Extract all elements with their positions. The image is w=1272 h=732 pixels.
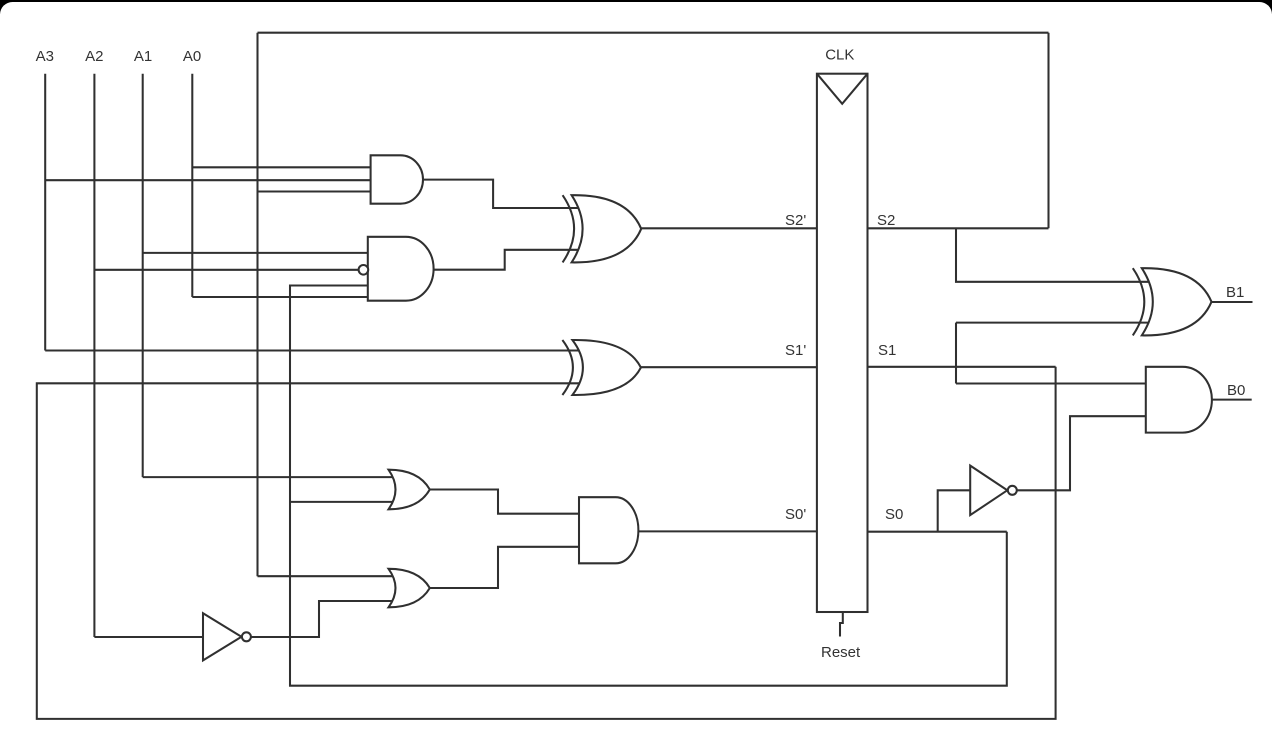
wire OR2 output to AND3 input2	[430, 547, 579, 588]
wire S0 output row	[868, 531, 1007, 533]
wire to XOR3 input2	[956, 322, 1150, 324]
wire AND1 output to XOR1 input1	[423, 180, 579, 208]
wire to AND4 input1	[956, 382, 1146, 384]
register REG1 body	[817, 74, 868, 612]
xor-gate XOR3 outer arc	[1133, 268, 1145, 335]
node A2 input vertical	[93, 74, 95, 637]
not-gate NOT1 triangle	[203, 613, 242, 660]
register REG1 clock wedge	[817, 74, 868, 104]
wire XOR2 output to register S1'	[641, 366, 817, 368]
svg-text:A0: A0	[183, 48, 201, 65]
svg-text:CLK: CLK	[825, 47, 854, 64]
wire A2 to NOT1 input	[94, 636, 203, 638]
node A3 input vertical	[44, 74, 46, 351]
wire A1 to AND2 input1	[143, 252, 368, 254]
wire S0 branch to OR1 input2	[290, 501, 395, 503]
xor-gate XOR2 outer arc	[562, 340, 573, 395]
wire XOR3 output B1	[1212, 301, 1253, 303]
and-gate AND4	[1146, 367, 1212, 433]
wire S1 output row	[868, 366, 1056, 368]
and-gate AND3	[579, 497, 638, 563]
not-gate NOT2 triangle	[970, 466, 1007, 515]
svg-text:S2: S2	[877, 212, 895, 229]
svg-text:S0': S0'	[785, 506, 806, 523]
wire S1 feedback loop	[37, 367, 1056, 719]
svg-text:B0: B0	[1227, 382, 1245, 399]
wire OR1 output to AND3 input1	[430, 490, 579, 514]
wire S2 end to OR2 input1	[258, 575, 396, 577]
node A1 input vertical	[142, 74, 144, 477]
xor-gate XOR3 body	[1142, 268, 1212, 335]
and-gate AND1	[371, 155, 423, 203]
wire A0 to AND1 input1	[192, 166, 370, 168]
svg-text:S2': S2'	[785, 212, 806, 229]
wire S2 branch to AND1 input3	[258, 190, 371, 192]
node A0 input vertical	[191, 74, 193, 297]
wire AND2 output to XOR1 input2	[434, 250, 579, 270]
nand-gate AND2	[368, 237, 434, 301]
wire AND3 output to register S0'	[638, 530, 817, 532]
xor-gate XOR1 outer arc	[563, 195, 575, 262]
wire S2 feedback left vertical	[256, 33, 258, 577]
wire AND4 output B0	[1212, 399, 1252, 401]
wire A1 to OR1 input1	[143, 476, 395, 478]
wire A2 to AND2 input2 bubble	[94, 269, 358, 271]
wire Reset stub	[840, 612, 843, 637]
wire A3 to AND1 input2	[45, 179, 370, 181]
svg-text:S1: S1	[878, 342, 896, 359]
svg-text:B1: B1	[1226, 284, 1244, 301]
bubble NOT2 output	[1008, 486, 1017, 495]
svg-text:S0: S0	[885, 506, 903, 523]
wire S0 feedback loop	[290, 286, 1007, 686]
wire NOT2 output to AND4 input2	[1017, 416, 1146, 490]
wire A0 to AND2 input4	[192, 296, 367, 298]
svg-text:S1': S1'	[785, 342, 806, 359]
wire S1 vertical to XOR3 input2	[955, 323, 957, 384]
xor-gate XOR2 body	[572, 340, 641, 395]
bubble NOT1 output	[242, 632, 251, 641]
svg-text:A3: A3	[36, 48, 54, 65]
wire S2 output row from register	[868, 227, 1049, 229]
svg-text:A1: A1	[134, 48, 152, 65]
svg-text:Reset: Reset	[821, 644, 861, 661]
wire NOT1 output to OR2 input2	[251, 601, 395, 637]
wire S0 branch up to NOT2 input	[938, 490, 971, 531]
or-gate OR1	[389, 470, 430, 510]
wire XOR1 output to register S2'	[641, 227, 817, 229]
xor-gate XOR1 body	[572, 195, 642, 262]
bubble AND2 input2	[359, 265, 369, 275]
wire S2 feedback top horizontal	[258, 32, 1049, 34]
wire A3 to XOR2 input1	[45, 349, 579, 351]
or-gate OR2	[389, 569, 430, 608]
wire S2 feedback right vertical	[1047, 33, 1049, 229]
svg-text:A2: A2	[85, 48, 103, 65]
wire S2 branch down to XOR3 input1	[956, 228, 1150, 281]
